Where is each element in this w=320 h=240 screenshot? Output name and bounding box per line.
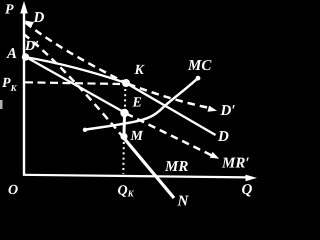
svg-text:D: D [217,129,229,145]
point M dot [120,133,127,140]
x-axis arrowhead [246,175,258,182]
point K dot (kink) [122,79,130,87]
demand curve D' right arrowhead [208,106,218,112]
svg-text:E: E [132,96,142,111]
marginal revenue MR (of steep demand) dashed upper part [24,34,124,137]
demand curve D' (flat) dashed segment K to right arrow [128,84,212,109]
marginal revenue MR solid thick segment from M to N [123,137,174,198]
marginal revenue MR' right arrowhead [210,152,220,159]
dotted quantity guide from M down to axis Q_K [122,142,125,174]
dashed price guide P_K to K [25,82,120,84]
y-axis arrowhead [20,1,28,14]
svg-text:MC: MC [187,58,212,74]
demand curve D (steep) solid segment from K to label D [126,83,216,135]
y-axis (price axis P) [23,10,25,176]
x-axis (quantity axis Q) [23,175,248,178]
demand curve D (steep) dashed upper part, arrowhead at top-left [25,21,35,29]
point E dot [120,109,128,117]
svg-text:Q: Q [242,182,253,198]
dotted quantity guide from K down to E [124,89,126,108]
svg-text:MR′: MR′ [221,156,250,172]
svg-text:K: K [134,63,146,78]
svg-text:M: M [130,129,144,144]
marginal revenue MR' dashed continuation from E to right arrow [126,114,212,156]
svg-text:D: D [33,10,45,26]
svg-text:MR: MR [164,159,188,175]
svg-text:N: N [177,194,190,208]
demand curve D' (flat) solid segment A to K [25,57,126,83]
scan speck at left edge [0,100,3,109]
demand curve D (steep) dashed segment from top to kink K [26,23,127,84]
marginal cost curve MC [84,78,199,130]
svg-text:O: O [8,183,18,198]
svg-text:D′: D′ [24,39,39,54]
svg-text:P: P [5,3,14,18]
MC curve start blob [83,128,87,132]
point A dot on axis [22,53,29,60]
svg-text:D′: D′ [220,103,236,119]
solid vertical gap segment E to M [123,115,127,134]
MC curve end blob [196,76,201,81]
svg-text:A: A [6,46,17,62]
marginal revenue MR (of flat demand) solid from A to E [25,57,125,113]
